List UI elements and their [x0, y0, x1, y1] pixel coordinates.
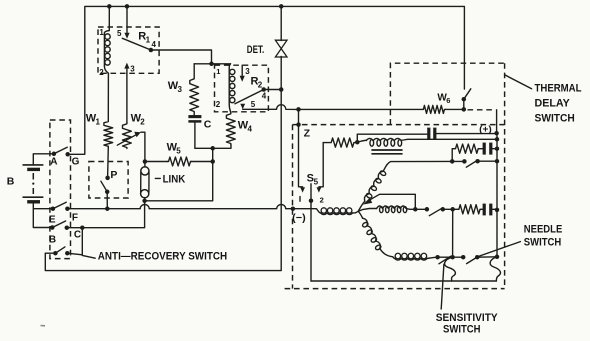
node S5 blade pivot	[309, 198, 314, 203]
node rowB switch right contact	[475, 159, 480, 164]
relay R2 coil	[229, 64, 230, 68]
contact 1 arrow S5	[300, 187, 305, 192]
wire junction up to plus row	[357, 134, 427, 142]
svg-text:THERMAL: THERMAL	[535, 83, 582, 95]
inductor sensitivity row coil	[393, 257, 395, 259]
svg-text:1: 1	[99, 28, 104, 37]
battery dash-dot omitted cells	[32, 173, 34, 194]
node junction top wire to R1 coil	[107, 4, 112, 8]
svg-text:SWITCH: SWITCH	[443, 324, 481, 336]
wire detector branch vertical down to anti-recovery bottom wire	[45, 6, 281, 270]
wire junction to W5	[145, 161, 167, 163]
node core coil to bus	[495, 137, 500, 142]
switch arm sensitivity	[439, 256, 451, 263]
wire plus row to bus	[437, 133, 497, 135]
svg-text:2: 2	[320, 196, 324, 205]
wire junction down to W5 right end	[212, 148, 214, 161]
switch arm rowB	[466, 160, 478, 167]
wiper arrow W2	[117, 134, 137, 145]
svg-text:4: 4	[248, 125, 253, 134]
svg-text:P: P	[110, 169, 117, 181]
node Z box boundary crossing	[296, 122, 301, 127]
svg-text:E: E	[49, 214, 56, 225]
node W5 right junction	[210, 159, 215, 164]
node switch E contact	[51, 206, 56, 211]
wire rowB resistor lead	[452, 149, 454, 162]
node anti-recovery left contact	[53, 251, 58, 256]
wire W6 to thermal switch contact	[446, 99, 464, 109]
svg-text:5: 5	[251, 100, 256, 109]
resistor row3 damping	[458, 205, 482, 214]
switch arm E	[53, 202, 66, 209]
svg-text:SENSITIVITY: SENSITIVITY	[436, 312, 498, 324]
node R2 contact 4	[261, 87, 266, 92]
svg-text:NEEDLE: NEEDLE	[524, 223, 563, 235]
wire bottom return	[311, 280, 496, 282]
wire junction row3 down to sensitivity row	[452, 209, 454, 257]
svg-text:2: 2	[99, 68, 104, 77]
svg-text:1: 1	[96, 118, 101, 127]
pointer line to NEEDLE SWITCH label	[478, 242, 521, 257]
detector DET symbol	[275, 40, 287, 57]
node row3 junction to bottom row	[450, 207, 455, 212]
wire thermal box corner to plus bus	[496, 110, 498, 133]
wire W1 to switch P	[107, 147, 110, 178]
wire contact C to anti-recovery switch	[67, 228, 83, 255]
svg-text:2: 2	[216, 100, 221, 109]
node middle coil output junction	[413, 207, 418, 212]
wiper arrow to coil tap junction	[368, 194, 416, 209]
node row3 switch left contact	[425, 207, 430, 212]
node anti-recovery right contact	[65, 251, 70, 256]
wire top bus from switch G across to thermal delay switch	[68, 6, 465, 154]
switch S5 pole blade	[310, 184, 312, 281]
resistor W2	[123, 123, 132, 149]
node bottom row to bus	[495, 255, 500, 260]
battery B cell 2	[23, 196, 44, 198]
flexible lead squiggle right	[490, 257, 500, 281]
svg-text:C: C	[74, 229, 81, 240]
node switch P top contact	[105, 176, 110, 181]
wire R1 contact 4 to W3/R2 junction	[151, 50, 212, 64]
svg-text:LINK: LINK	[163, 174, 186, 186]
resistor Z input	[323, 138, 355, 147]
stray scan mark	[41, 325, 46, 327]
node plus row to bus	[494, 131, 499, 136]
wire R1 contact 3 lead	[126, 68, 128, 73]
svg-text:SWITCH: SWITCH	[535, 113, 575, 125]
node switch P bottom contact	[105, 190, 110, 195]
node row3 to bus	[495, 208, 500, 213]
switch arm R2 from 5 to contact 4	[235, 90, 264, 104]
svg-text:Z: Z	[304, 128, 311, 140]
svg-text:2: 2	[140, 118, 145, 127]
fuse LINK body	[144, 162, 146, 168]
node P to bus junction	[105, 206, 110, 211]
node junction W6 wire to Z-box feed	[296, 107, 301, 112]
svg-text:1: 1	[216, 67, 220, 76]
svg-text:3: 3	[178, 85, 183, 94]
switch arm thermal delay switch	[464, 89, 471, 99]
resistor W1	[104, 121, 113, 148]
wire R1 contact 3 to W2	[126, 73, 128, 123]
node rowB wire to bus	[495, 159, 500, 164]
wire R1 coil feed	[108, 6, 110, 30]
capacitor row3 damping plates	[483, 204, 486, 216]
node switch F contact	[65, 206, 70, 211]
svg-text:(+): (+)	[479, 124, 492, 134]
node junction top wire to R1 contact 5	[125, 4, 130, 8]
svg-text:B: B	[49, 234, 56, 245]
svg-text:1: 1	[146, 35, 151, 44]
wire negative bus from contact F with hops	[67, 205, 311, 209]
svg-text:6: 6	[446, 96, 450, 105]
svg-text:4: 4	[262, 92, 267, 101]
node needle switch contact	[475, 255, 480, 260]
wire rising-coil row with switch	[452, 160, 497, 162]
wire battery positive to switch A	[33, 154, 54, 165]
node bottom row squiggle junction	[450, 255, 455, 260]
wire W2 wiper to LINK junction	[141, 132, 145, 161]
contact 2 arrow S5	[317, 187, 322, 192]
svg-text:(−): (−)	[292, 212, 306, 224]
wire Z-box feed down to selector contact 1	[299, 109, 303, 186]
wire row3 to switch	[415, 208, 427, 210]
wire switch P to negative bus	[106, 192, 108, 209]
capacitor C plates	[188, 115, 201, 118]
wire row3 contact to resistor	[443, 208, 458, 210]
inductor rising tap coil to switch row	[358, 201, 365, 211]
switch group dashed box	[50, 120, 71, 259]
wire R1 contact 5 feed	[126, 6, 128, 32]
wire W5 right end to junction	[192, 161, 213, 163]
svg-text:B: B	[7, 175, 15, 187]
svg-text:C: C	[204, 119, 212, 131]
svg-text:5: 5	[117, 29, 122, 38]
svg-text:5: 5	[314, 178, 319, 187]
switch P dashed box	[89, 162, 128, 199]
resistor W3	[190, 64, 199, 113]
wire R1 coil bottom to W1	[107, 73, 109, 120]
contact 5 arrow R1	[124, 33, 129, 39]
svg-text:3: 3	[130, 64, 135, 73]
node W3/R2 top junction	[209, 62, 214, 67]
wire bottom row	[438, 256, 497, 258]
wire R2 contact 4 to detector line	[264, 89, 282, 91]
inductor middle tap coil	[358, 209, 376, 212]
contact 3 arrow R2	[241, 65, 243, 76]
switch arm row3	[429, 208, 442, 215]
wire battery negative to switches E and B	[33, 202, 53, 228]
node switch C contact	[65, 225, 70, 230]
contact 3 arrow R1	[124, 63, 129, 69]
svg-text:DET.: DET.	[247, 44, 264, 56]
switch arm needle	[467, 257, 478, 264]
pin 1 tick S5	[299, 197, 301, 202]
pointer line to THERMAL DELAY SWITCH label	[505, 75, 532, 89]
svg-text:A: A	[50, 157, 57, 168]
wire W5 junction down and left to LINK bottom	[145, 162, 213, 201]
flexible lead squiggle left	[445, 257, 456, 281]
pointer line to ANTI-RECOVERY label	[82, 255, 95, 258]
switch arm R1 from contact 5 to contact 4	[122, 38, 151, 50]
switch arm anti-recovery	[55, 247, 65, 253]
resistor W6	[422, 105, 445, 113]
wire top of W3 and R2 coil	[194, 63, 230, 65]
node row3 switch right contact	[441, 207, 446, 212]
node W5/LINK/wiper junction	[143, 159, 148, 164]
svg-text:F: F	[72, 212, 78, 223]
node thermal switch moving contact	[462, 97, 467, 102]
wire selector contact 2 arm up to resistor row	[319, 143, 323, 187]
svg-text:5: 5	[176, 147, 181, 156]
resistor W5	[167, 157, 191, 166]
node W6 right junction	[462, 107, 467, 112]
switch arm A	[54, 147, 67, 154]
pointer line to SENSITIVITY SWITCH label	[441, 264, 444, 309]
node bottom branch junction to W5	[210, 146, 215, 151]
wire main right bus	[496, 134, 498, 257]
svg-text:SWITCH: SWITCH	[524, 236, 561, 248]
wire C plate leads	[193, 113, 196, 148]
node junction top wire to detector branch	[279, 4, 284, 8]
node rowB switch left contact	[462, 159, 467, 164]
wire bottom of C/W4 branch	[195, 145, 231, 149]
svg-text:G: G	[72, 157, 80, 168]
inductor falling tap coil to sensitivity row	[358, 211, 362, 218]
node rowB cap to bus	[495, 146, 500, 151]
node contact C wire junction	[80, 225, 85, 230]
resistor W4	[226, 113, 235, 145]
capacitor rowB damping plates	[483, 143, 486, 155]
node R1 contact 4	[149, 48, 154, 53]
svg-text:ANTI—RECOVERY SWITCH: ANTI—RECOVERY SWITCH	[98, 251, 227, 263]
node switch A contact	[52, 152, 57, 157]
resistor rowB damping	[454, 144, 479, 153]
node LINK bottom junction	[142, 199, 147, 204]
wire LINK bottom down to contact C wire	[82, 201, 144, 228]
thermal delay switch dashed box	[390, 63, 504, 124]
svg-text:2: 2	[258, 80, 263, 89]
node bottom row coil end	[435, 255, 440, 260]
node bus junction at Z box edge	[291, 206, 296, 211]
label LINK leader	[155, 177, 160, 179]
node detector line junction with R2 contact 4	[279, 87, 284, 92]
node switch G contact	[65, 152, 70, 157]
node bottom row contact left	[461, 255, 466, 260]
wire R2 contact 5 out to W6 with hop over detector line	[243, 105, 423, 110]
relay R1 coil	[104, 31, 109, 34]
relay R2 dashed box	[215, 65, 269, 112]
relay R1 dashed box	[98, 27, 159, 73]
node junction resistor / core-coil / plus row	[355, 140, 360, 145]
shield Z dashed box	[293, 124, 505, 126]
battery B cell 1	[23, 164, 44, 166]
inductor iron-core coil	[357, 140, 366, 142]
inductor first tap coil	[311, 209, 321, 213]
svg-text:4: 4	[152, 40, 157, 49]
capacitor plus row plates	[427, 128, 430, 140]
node switch B contact	[50, 225, 55, 230]
contact 5 arrow R2	[240, 104, 245, 110]
node rowB left junction	[450, 159, 455, 164]
iron core lines	[371, 150, 402, 154]
switch arm P	[101, 181, 107, 192]
svg-text:DELAY: DELAY	[535, 98, 571, 110]
switch arm B	[52, 221, 65, 228]
